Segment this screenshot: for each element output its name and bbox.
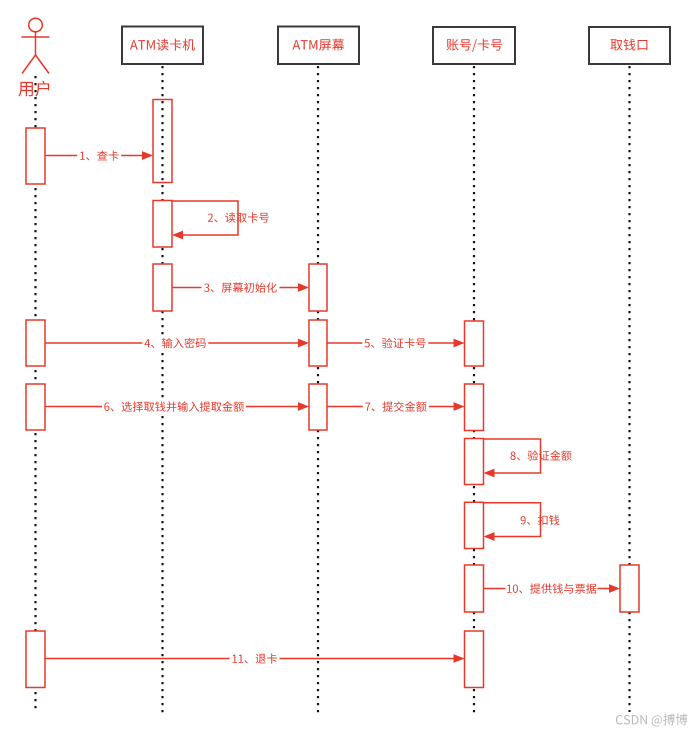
object box ATM读卡机: [122, 27, 203, 65]
label ATM屏幕: [292, 39, 344, 51]
activation ATM屏幕 #1: [309, 264, 327, 311]
activation ATM屏幕 #3: [309, 384, 327, 430]
message 11 退卡: [45, 654, 465, 663]
label 账号/卡号: [446, 39, 502, 52]
message 4 输入密码: [45, 339, 309, 348]
lifeline 取钱口: [628, 66, 630, 712]
label 6、选择取钱并输入提取金额: [102, 400, 246, 413]
activation ATM读卡机 #2 (self 读取卡号): [153, 201, 172, 248]
message 5 验证卡号: [327, 339, 465, 348]
label 10、提供钱与票据: [506, 582, 598, 595]
activation 用户 #2: [26, 320, 45, 366]
watermark CSDN @搏博: [616, 714, 688, 727]
message 9 self 扣钱: [484, 503, 541, 541]
label 8、验证金额: [510, 450, 571, 460]
activation ATM读卡机 #3 (receive 屏幕初始化... source): [153, 264, 172, 311]
object box 取钱口: [589, 27, 670, 64]
activation 账号/卡号 #1 (验证卡号): [465, 321, 484, 366]
message 10 提供钱与票据: [484, 584, 621, 593]
message 6 选择取钱并输入提取金额: [45, 402, 309, 411]
label 取钱口: [610, 39, 647, 51]
label 9、扣钱: [521, 515, 560, 525]
activation ATM读卡机 #1 (receive 查卡): [153, 100, 172, 183]
message 1 查卡: [45, 151, 153, 160]
message 8 self 验证金额: [484, 439, 541, 477]
label 11、退卡: [230, 652, 280, 665]
label 3、屏幕初始化: [202, 281, 280, 294]
activation 账号/卡号 #6 (receive 退卡): [465, 631, 484, 688]
activation 账号/卡号 #3 (self 验证金额): [465, 439, 484, 485]
label 2、读取卡号: [208, 212, 269, 222]
activation 账号/卡号 #5 (提供钱与票据): [465, 565, 484, 612]
message 3 屏幕初始化: [172, 283, 309, 292]
message 2 self 读取卡号: [172, 201, 238, 239]
lifeline ATM屏幕: [317, 66, 319, 713]
label 1、查卡: [77, 149, 121, 162]
message 7 提交金额: [327, 402, 465, 411]
lifeline ATM读卡机: [161, 66, 163, 713]
activation 账号/卡号 #4 (self 扣钱): [465, 502, 484, 548]
label 4、输入密码: [142, 337, 208, 350]
actor 用户 stick figure: [22, 18, 50, 73]
object box ATM屏幕: [278, 27, 359, 65]
activation 账号/卡号 #2 (提交金额): [465, 384, 484, 431]
activation 用户 #3: [26, 384, 45, 430]
activation ATM屏幕 #2: [309, 320, 327, 366]
label 7、提交金额: [363, 400, 429, 413]
label ATM读卡机: [130, 39, 195, 51]
lifeline 用户: [34, 76, 36, 713]
activation 用户 #4: [26, 631, 45, 688]
label 5、验证卡号: [362, 337, 428, 350]
lifeline 账号/卡号: [473, 66, 475, 713]
label 用户: [18, 81, 49, 97]
object box 账号/卡号: [433, 27, 515, 64]
activation 用户 #1: [26, 128, 45, 184]
activation 取钱口 #1: [620, 565, 639, 612]
